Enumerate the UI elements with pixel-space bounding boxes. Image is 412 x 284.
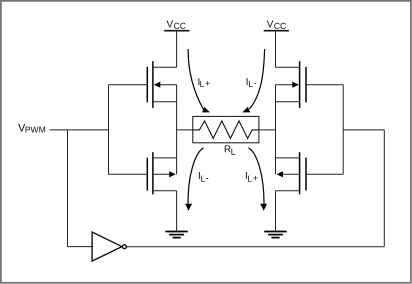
wire to Q2 gate — [306, 84, 343, 86]
label IL+ upper — [198, 78, 209, 87]
resistor RL zigzag — [193, 121, 259, 138]
wire Vpwm input — [50, 129, 109, 131]
wire right riser — [383, 130, 385, 247]
wire node A to resistor — [177, 129, 193, 131]
Vcc rail bar right — [264, 30, 289, 32]
wire riser to right gate bus — [343, 129, 384, 131]
ground (left) — [165, 232, 188, 238]
label Vpwm — [18, 124, 45, 133]
wire Vcc-left to Q1 drain — [176, 31, 178, 68]
label Vcc (right supply) — [267, 21, 286, 29]
wire to Q3 gate — [109, 173, 148, 175]
current arrow IL- (lower left) — [185, 148, 203, 211]
inverter U1 — [92, 232, 126, 261]
ground (right) — [264, 232, 287, 238]
wire left gate bus — [108, 85, 110, 175]
transistor Q3 (lower left MOSFET) — [147, 152, 176, 194]
Vcc rail bar left — [164, 30, 189, 32]
label IL+ lower — [246, 172, 258, 182]
wire resistor to node B — [259, 129, 276, 131]
wire node A to Q3 drain/body — [176, 130, 178, 174]
label IL- lower — [199, 172, 208, 182]
transistor Q4 (lower right MOSFET) — [276, 152, 307, 194]
wire to Q1 gate — [109, 84, 148, 86]
wire Q1 source/body to load node A — [176, 85, 178, 130]
wire Vcc-right to Q2 drain — [275, 31, 277, 68]
wire Q4 source to ground — [275, 191, 277, 232]
wire node B to Q4 drain/body — [275, 130, 277, 174]
wire Q2 source/body to load node B — [275, 85, 277, 130]
wire to Q4 gate — [306, 173, 343, 175]
transistor Q2 (upper right MOSFET) — [276, 61, 307, 108]
current arrow IL- (upper right) — [242, 49, 264, 112]
wire inverter output — [127, 246, 385, 248]
label IL- upper — [247, 78, 257, 87]
label RL — [225, 145, 236, 154]
wire Q3 source to ground — [176, 191, 178, 232]
resistor RL box — [193, 116, 259, 142]
transistor Q1 (upper left MOSFET) — [147, 61, 176, 108]
current arrow IL+ (upper left) — [188, 49, 210, 112]
wire right gate bus — [342, 85, 344, 175]
wire Vpwm to inverter input — [67, 130, 69, 247]
label Vcc (left supply) — [167, 21, 186, 29]
current arrow IL+ (lower right) — [249, 148, 268, 211]
